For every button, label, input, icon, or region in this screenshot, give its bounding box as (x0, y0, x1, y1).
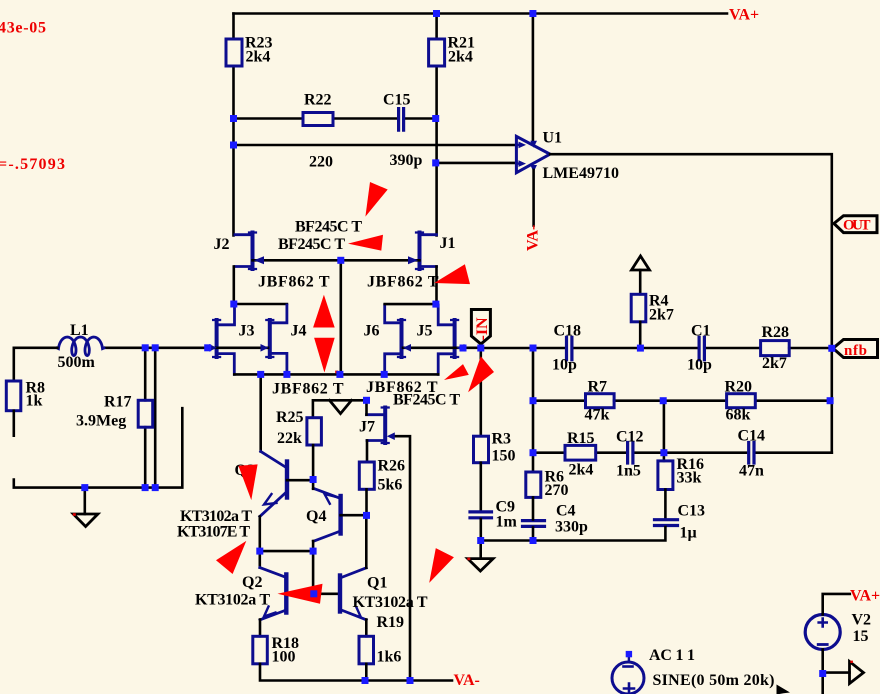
svg-text:R20: R20 (725, 379, 753, 396)
transistor J1 (418, 233, 422, 270)
op-amp U1 (516, 136, 550, 172)
capacitor C1 (699, 337, 704, 360)
resistor R7 (586, 394, 615, 408)
red arrow A4 up (313, 295, 335, 328)
svg-text:220: 220 (309, 154, 333, 171)
svg-text:1n5: 1n5 (616, 463, 641, 480)
svg-text:330p: 330p (555, 519, 588, 536)
svg-text:J6: J6 (364, 323, 380, 340)
wire bottom left with stub and riser (14, 408, 183, 487)
wire gate row J2-J1 (253, 259, 420, 262)
svg-text:VA+: VA+ (850, 588, 880, 605)
resistor R22 (303, 113, 333, 126)
resistor R23 (226, 39, 242, 66)
wire J7 source to R26 (366, 441, 369, 463)
tag -IN (471, 310, 490, 345)
svg-text:1m: 1m (496, 514, 518, 531)
resistor R3 (474, 436, 489, 463)
svg-text:LME49710: LME49710 (543, 165, 619, 182)
wire R19 bottom (365, 664, 368, 681)
wire R15 C12 C14 row (533, 451, 832, 454)
transistor J5 (453, 320, 457, 357)
svg-text:R19: R19 (377, 614, 405, 631)
svg-text:R25: R25 (276, 409, 304, 426)
voltage source V2 (805, 615, 840, 650)
svg-text:R26: R26 (378, 458, 406, 475)
wire Q3 emitter down (258, 517, 261, 552)
wire R17 drop 2 (154, 348, 157, 488)
svg-text:C4: C4 (556, 503, 576, 520)
wire op-amp in- (436, 162, 517, 165)
wire R25 bottom (312, 445, 315, 480)
wire Q2-Q1 base link (286, 592, 340, 595)
tag nfb (833, 340, 878, 358)
wire op-amp output to right rail (550, 154, 832, 453)
inductor L1 (57, 337, 104, 356)
svg-text:1k: 1k (26, 393, 43, 410)
svg-text:100: 100 (272, 649, 296, 666)
svg-text:KT3102a T: KT3102a T (180, 508, 252, 525)
red arrow A6 (444, 364, 469, 380)
resistor R21 (429, 39, 445, 66)
wire R25 row + down power arrow (313, 400, 367, 417)
capacitor C9 (470, 512, 492, 518)
resistor R25 (307, 418, 322, 445)
wire source bus (234, 373, 438, 376)
transistor J3 (215, 320, 219, 357)
svg-text:L1: L1 (70, 322, 89, 339)
wire R8 bottom dangling (13, 411, 16, 436)
resistor R6 (526, 472, 541, 497)
svg-text:J1: J1 (440, 235, 456, 252)
svg-text:2k7: 2k7 (649, 307, 674, 324)
red arrow A10 base (278, 584, 323, 604)
wire mid drop gate bus (339, 260, 342, 374)
wire L1 left + R8 drop (14, 348, 58, 381)
red arrow A8 over Q3 (238, 464, 257, 500)
svg-text:KT3102a T: KT3102a T (195, 592, 270, 609)
wire R16 to C13 (664, 490, 667, 519)
wire Q3e-Q4c link (260, 550, 313, 553)
wire -IN node down to R3 (479, 348, 482, 436)
svg-text:V2: V2 (852, 612, 872, 629)
power arrow above R4 (632, 256, 650, 270)
wire R23 rail upper (232, 14, 235, 236)
wire gate J3 J4 from L1 (104, 346, 268, 349)
resistor R16 (658, 461, 673, 490)
wire Q2 collector (258, 551, 261, 567)
wire bottom row C9 C4 C13 (481, 527, 666, 541)
wire R26 bottom (365, 489, 368, 515)
svg-text:OUT: OUT (843, 218, 871, 234)
red arrow A5 down (314, 338, 335, 373)
red arrow A9 (216, 541, 246, 574)
wire Q3 collector drop (259, 374, 262, 451)
svg-text:J3: J3 (239, 323, 255, 340)
svg-text:VA-: VA- (454, 672, 480, 689)
wire R17 drop 1 (144, 348, 147, 488)
svg-text:500m: 500m (58, 354, 96, 371)
wire top rail VA+ (234, 12, 728, 15)
svg-text:R22: R22 (304, 92, 332, 109)
svg-text:43e-05: 43e-05 (0, 20, 46, 37)
ground right (479, 541, 482, 559)
wire Q2 emitter to R18 (259, 620, 262, 637)
wire Q4 emitter stub (312, 480, 315, 489)
resistor R4 (631, 294, 646, 322)
resistor R19 (359, 636, 374, 664)
svg-text:VA-: VA- (525, 225, 542, 251)
wire R3 to C9 (479, 463, 482, 510)
svg-text:15: 15 (853, 628, 869, 645)
svg-text:33k: 33k (677, 470, 702, 487)
wire J7 junction drop (365, 400, 368, 414)
svg-text:R17: R17 (104, 394, 132, 411)
wire V2 bottom (821, 650, 824, 694)
svg-text:KT3107E T: KT3107E T (177, 524, 250, 541)
svg-text:C14: C14 (738, 428, 766, 445)
svg-text:2k4: 2k4 (246, 49, 271, 66)
svg-text:=-.57093: =-.57093 (0, 156, 65, 173)
svg-text:J5: J5 (417, 323, 433, 340)
svg-text:10p: 10p (552, 357, 577, 374)
wire Q1 emitter to R19 (365, 620, 368, 637)
svg-text:2k4: 2k4 (569, 462, 594, 479)
wire Q4 collector stub (312, 541, 315, 551)
transistor J6 (400, 320, 404, 357)
wire R18 bottom + VA- row (260, 664, 452, 681)
svg-text:1k6: 1k6 (377, 649, 402, 666)
svg-text:JBF862 T: JBF862 T (258, 274, 330, 291)
wire op-amp V- (532, 170, 535, 226)
capacitor C15 (399, 109, 404, 131)
svg-text:JBF862 T: JBF862 T (272, 381, 344, 398)
svg-text:R15: R15 (567, 430, 595, 447)
wire left rail mid (532, 348, 535, 472)
svg-text:KT3102a T: KT3102a T (353, 594, 428, 611)
svg-text:C12: C12 (616, 429, 644, 446)
svg-text:JBF862 T: JBF862 T (367, 274, 439, 291)
ground left (84, 488, 87, 514)
wire J7 gate right (392, 436, 410, 680)
capacitor C18 (567, 337, 572, 360)
transistor J4 (268, 320, 272, 357)
wire op-amp in+ (234, 144, 517, 147)
wire R7 row (533, 399, 831, 402)
capacitor C13 (655, 520, 678, 526)
red arrow A1 (365, 182, 387, 217)
svg-text:J4: J4 (291, 323, 307, 340)
capacitor C14 (749, 443, 754, 464)
tiny red probe marks (73, 513, 76, 516)
svg-text:BF245C T: BF245C T (295, 219, 362, 236)
svg-text:10p: 10p (687, 357, 712, 374)
transistor Q4 (338, 496, 342, 534)
svg-text:BF245C T: BF245C T (278, 236, 345, 253)
red arrow A11 (429, 548, 454, 583)
svg-text:R7: R7 (588, 379, 608, 396)
wire J2 source down (233, 267, 236, 305)
svg-text:R3: R3 (492, 431, 512, 448)
wire R21 rail upper (435, 14, 438, 236)
resistor R20 (727, 394, 756, 408)
svg-text:J7: J7 (359, 419, 375, 436)
wire gate J5 J6 from -IN node (403, 346, 481, 349)
mouse cursor (777, 685, 791, 694)
svg-text:68k: 68k (726, 407, 751, 424)
svg-text:47k: 47k (585, 407, 610, 424)
svg-text:SINE(0 50m 20k): SINE(0 50m 20k) (653, 672, 775, 689)
svg-text:47n: 47n (739, 463, 764, 480)
red arrow A7 (468, 356, 494, 392)
svg-text:Q4: Q4 (306, 508, 326, 525)
wire J6 J5 drain link (385, 303, 436, 306)
svg-text:nfb: nfb (844, 343, 867, 359)
resistor R18 (253, 636, 267, 664)
svg-text:AC 1 1: AC 1 1 (649, 647, 695, 664)
wire J3 J4 drain link (234, 303, 287, 306)
wire R22 C15 row (234, 117, 436, 120)
svg-text:C18: C18 (554, 323, 582, 340)
svg-text:C1: C1 (691, 323, 711, 340)
resistor R28 (761, 341, 790, 356)
wire link down to bases (312, 551, 315, 594)
svg-text:C15: C15 (383, 92, 411, 109)
wire to out arrow (823, 671, 850, 674)
svg-text:270: 270 (545, 482, 569, 499)
svg-text:-IN: -IN (474, 317, 491, 341)
wire J1 source down (435, 267, 438, 305)
transistor Q3 (285, 462, 289, 498)
svg-text:Q1: Q1 (367, 575, 387, 592)
tag OUT (834, 216, 877, 233)
resistor R8 (6, 381, 20, 411)
svg-text:C13: C13 (678, 503, 706, 520)
svg-text:22k: 22k (277, 430, 302, 447)
capacitor C12 (628, 443, 633, 464)
capacitor C4 (523, 521, 545, 527)
svg-text:R28: R28 (762, 324, 790, 341)
transistor J2 (251, 233, 255, 270)
svg-text:5k6: 5k6 (378, 477, 403, 494)
svg-text:U1: U1 (543, 130, 563, 147)
svg-text:BF245C T: BF245C T (393, 392, 460, 409)
svg-text:2k4: 2k4 (448, 49, 473, 66)
svg-text:Q2: Q2 (242, 574, 262, 591)
svg-text:VA+: VA+ (729, 7, 759, 24)
svg-text:1µ: 1µ (680, 525, 697, 542)
source AC V1 (612, 662, 644, 694)
red arrow A3 (434, 264, 470, 284)
wire VA+ drop to op-amp (532, 14, 535, 141)
resistor R15 (565, 445, 596, 460)
resistor R26 (359, 462, 374, 489)
red arrow A2 (348, 235, 383, 251)
transistor J7 (383, 408, 387, 444)
wire Q1 collector up (365, 515, 368, 567)
transistor Q2 (284, 575, 288, 613)
wire R16 drop (663, 401, 666, 461)
svg-text:150: 150 (492, 448, 516, 465)
svg-text:390p: 390p (390, 152, 423, 169)
transistor Q1 (338, 576, 342, 612)
wire V2 top to VA+ (823, 594, 850, 615)
resistor R17 (138, 400, 153, 427)
svg-text:3.9Meg: 3.9Meg (76, 413, 126, 430)
svg-text:J2: J2 (214, 236, 230, 253)
svg-text:2k7: 2k7 (762, 355, 787, 372)
out arrow symbol (850, 662, 864, 684)
wire nfb row (481, 347, 832, 350)
